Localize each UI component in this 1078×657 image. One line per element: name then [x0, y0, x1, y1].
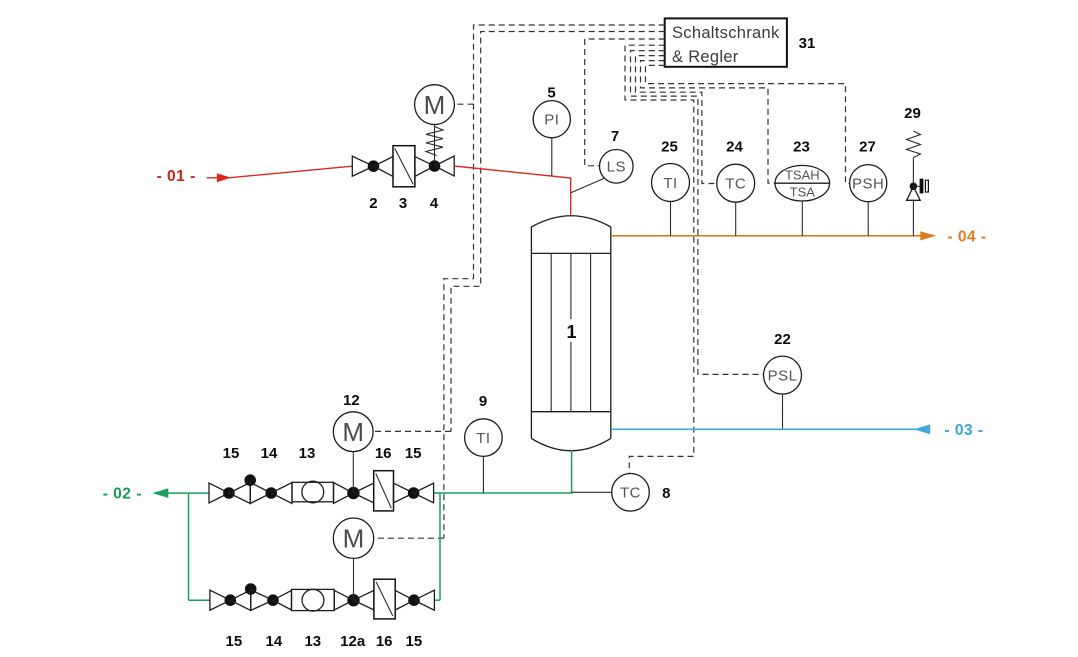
svg-text:& Regler: & Regler — [672, 48, 739, 66]
temperature indicator TI 25 — [652, 164, 690, 202]
signal line to PSL 22 — [631, 51, 764, 375]
pressure indicator PI 5 — [533, 101, 570, 138]
sight glass 13 (train 2) — [273, 589, 354, 611]
svg-text:15: 15 — [226, 633, 243, 650]
signal line trunk A (to motor M4 / M12a): horizontal top — [444, 25, 665, 538]
svg-text:M: M — [424, 90, 446, 120]
svg-text:3: 3 — [399, 195, 407, 212]
valve 2 — [352, 156, 379, 176]
label 1 — [564, 319, 579, 342]
svg-text:TI: TI — [476, 430, 490, 447]
svg-text:16: 16 — [375, 445, 392, 462]
TC 24 stem — [735, 202, 737, 236]
wire red feed line to valve 2 — [229, 166, 352, 178]
level switch LS 7 — [600, 150, 634, 184]
valve 14 (train 1, with stem dot) — [229, 474, 277, 503]
svg-text:M: M — [343, 524, 365, 554]
valve 15 (train 2 left) — [210, 590, 236, 610]
temperature controller TC 24 — [717, 164, 755, 202]
signal stub to motor M12a — [376, 537, 444, 539]
svg-text:25: 25 — [661, 139, 678, 156]
motor M (valve 4 actuator) — [415, 85, 455, 125]
TI 9 stem — [482, 456, 484, 493]
red flow arrow — [217, 173, 231, 182]
svg-text:22: 22 — [774, 331, 791, 348]
signal line to level switch LS 7 — [585, 39, 665, 166]
svg-text:- 02 -: - 02 - — [103, 486, 142, 503]
svg-text:15: 15 — [406, 633, 423, 650]
signal line trunk B (to motor M12): horizontal top — [451, 32, 665, 432]
wire green line arrow to train 1 — [167, 492, 210, 494]
svg-text:PSL: PSL — [768, 368, 798, 385]
motor M 12a — [333, 518, 373, 558]
valve 15 (train 1 right) — [408, 483, 434, 503]
svg-text:16: 16 — [376, 633, 393, 650]
pressure switch high PSH 27 — [850, 165, 887, 202]
svg-text:5: 5 — [547, 85, 555, 102]
safety relief valve 29 — [907, 158, 929, 236]
valve 4 actuator spring — [426, 127, 443, 156]
LS 7 connecting line — [571, 178, 604, 193]
wire green line train 2 left — [189, 599, 210, 601]
svg-text:PSH: PSH — [852, 176, 884, 193]
svg-text:7: 7 — [611, 128, 619, 145]
orange flow arrow — [920, 231, 936, 240]
Schaltschrank & Regler control cabinet box 31 — [665, 18, 787, 66]
temperature controller TC 8 — [612, 474, 650, 512]
svg-text:- 01 -: - 01 - — [157, 168, 196, 185]
svg-text:M: M — [342, 417, 364, 447]
temperature switch TSAH/TSA 23 — [775, 165, 830, 201]
signal line to TC 24 — [636, 56, 717, 184]
svg-text:PI: PI — [544, 112, 559, 129]
signal line to TSAH/TSA 23 — [641, 61, 775, 184]
valve 4 actuator stem — [434, 125, 436, 163]
svg-text:24: 24 — [726, 139, 743, 156]
TI 25 stem — [670, 202, 672, 236]
svg-text:14: 14 — [266, 633, 283, 650]
motor M 12a stem — [353, 559, 355, 601]
green flow arrow — [152, 488, 168, 498]
svg-text:LS: LS — [607, 159, 626, 176]
valve 4 (motor actuated) — [415, 156, 454, 176]
TC 8 connecting line — [572, 491, 612, 493]
svg-text:23: 23 — [793, 139, 810, 156]
svg-text:2: 2 — [369, 195, 377, 212]
svg-text:TI: TI — [663, 175, 677, 192]
signal stub to motor M12 — [373, 430, 451, 432]
signal line to PSH 27 — [646, 65, 850, 183]
signal stub to motor M4 — [455, 103, 474, 105]
wire green right riser — [439, 493, 441, 600]
wire green line train 2 right — [434, 599, 440, 601]
wire green vessel downcomer — [571, 450, 573, 494]
svg-text:TC: TC — [725, 176, 746, 193]
PSH 27 stem — [867, 202, 869, 236]
wire orange product line — [611, 235, 921, 237]
svg-text:- 03 -: - 03 - — [944, 422, 983, 439]
svg-text:12: 12 — [343, 392, 360, 409]
valve 15 (train 2 right) — [408, 590, 434, 610]
svg-text:27: 27 — [859, 139, 876, 156]
valve 16 (train 1) — [353, 471, 413, 511]
motor M 12 stem — [352, 452, 354, 493]
svg-text:13: 13 — [299, 445, 316, 462]
svg-text:Schaltschrank: Schaltschrank — [672, 24, 780, 42]
svg-text:15: 15 — [223, 445, 240, 462]
PSL 22 stem — [782, 394, 784, 429]
svg-text:13: 13 — [304, 633, 321, 650]
valve 15 (train 1 left) — [209, 483, 235, 503]
junction node (pump 12a connection, train 2) — [347, 594, 359, 606]
svg-text:29: 29 — [904, 105, 921, 122]
PI 5 stem — [551, 138, 553, 176]
svg-text:4: 4 — [430, 195, 439, 212]
motor M 12 — [333, 412, 373, 452]
wire red tick — [207, 177, 218, 179]
safety relief valve 29 spring — [907, 131, 921, 158]
blue flow arrow — [914, 424, 931, 434]
svg-text:9: 9 — [479, 393, 487, 410]
vessel 1 (heat exchanger column) — [531, 216, 610, 451]
valve 16 (train 2) — [354, 579, 415, 619]
junction node (pump 12 connection, train 1) — [347, 487, 359, 499]
wire green left riser — [188, 493, 190, 600]
sight glass / non-return 3 — [374, 146, 415, 187]
svg-text:TC: TC — [620, 485, 641, 502]
svg-text:14: 14 — [261, 445, 278, 462]
svg-text:8: 8 — [662, 485, 670, 502]
wire red line valve 4 to vessel — [454, 166, 571, 216]
TSAH 23 stem — [801, 201, 803, 236]
svg-text:31: 31 — [799, 35, 816, 52]
wire blue feed line — [611, 428, 930, 430]
svg-text:TSAH: TSAH — [785, 168, 820, 183]
valve 14 (train 2, with stem dot) — [230, 583, 279, 610]
pressure switch low PSL 22 — [764, 356, 802, 394]
sight glass 13 (train 1) — [271, 481, 353, 503]
svg-text:15: 15 — [405, 445, 422, 462]
svg-text:1: 1 — [566, 322, 576, 342]
svg-text:- 04 -: - 04 - — [947, 229, 986, 246]
svg-text:TSA: TSA — [790, 185, 816, 200]
temperature indicator TI 9 — [465, 419, 503, 457]
signal line to TC 8 — [625, 45, 694, 473]
wire green line train 1 to vessel — [434, 492, 572, 494]
svg-text:12a: 12a — [340, 633, 366, 650]
